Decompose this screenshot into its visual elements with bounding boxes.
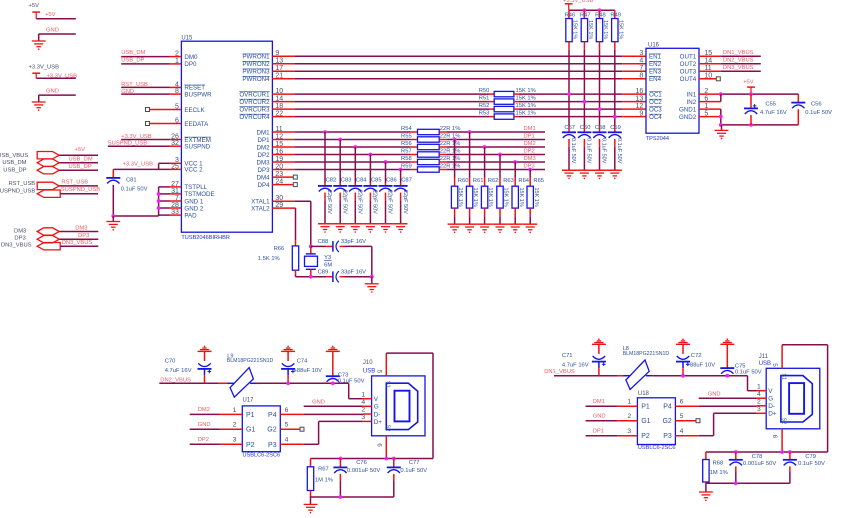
svg-text:DM3: DM3 bbox=[75, 226, 87, 232]
wire rail mid bbox=[654, 375, 748, 377]
wire DM3 row right bbox=[447, 161, 545, 163]
wire bbox=[59, 185, 98, 187]
svg-text:R64: R64 bbox=[518, 178, 529, 184]
svg-text:DN2_VBUS: DN2_VBUS bbox=[723, 57, 754, 63]
wire bottom rail bbox=[721, 124, 799, 126]
svg-text:OUT1: OUT1 bbox=[680, 54, 697, 61]
ground bbox=[463, 223, 477, 225]
svg-text:G: G bbox=[768, 396, 773, 403]
svg-text:22pF 50V: 22pF 50V bbox=[341, 190, 347, 214]
svg-text:G1: G1 bbox=[641, 418, 650, 425]
svg-text:22R 1%: 22R 1% bbox=[440, 141, 461, 147]
capacitor C83 22pF bbox=[339, 140, 341, 184]
resistor R54 22R bbox=[410, 131, 418, 133]
ground bbox=[32, 101, 46, 103]
svg-text:OUT2: OUT2 bbox=[680, 61, 697, 68]
wire DP2 row left bbox=[295, 154, 410, 156]
svg-text:6M: 6M bbox=[324, 262, 332, 268]
svg-text:GND1: GND1 bbox=[679, 106, 697, 113]
svg-text:DN3_VBUS: DN3_VBUS bbox=[1, 242, 32, 248]
svg-text:DN3_VBUS: DN3_VBUS bbox=[723, 65, 754, 71]
wire OVRCUR1 bus right bbox=[519, 93, 622, 95]
wire OVRCUR4 bus right bbox=[519, 116, 622, 118]
wire bottom rail RC bbox=[706, 482, 790, 484]
wire OVRCUR1 bus left bbox=[295, 93, 489, 95]
capacitor C86 22pF bbox=[385, 162, 387, 183]
wire bbox=[59, 231, 98, 233]
wire bbox=[121, 139, 169, 141]
wire DN1_VBUS rail bbox=[554, 375, 624, 377]
wire bbox=[60, 245, 98, 247]
svg-text:R54: R54 bbox=[401, 126, 412, 132]
svg-text:15K 1%: 15K 1% bbox=[457, 188, 463, 207]
svg-text:6: 6 bbox=[771, 435, 778, 439]
svg-text:22pF 50V: 22pF 50V bbox=[357, 190, 363, 214]
svg-text:15K 1%: 15K 1% bbox=[516, 111, 536, 117]
wire shield loop bbox=[782, 344, 828, 346]
svg-text:4.7uF 16V: 4.7uF 16V bbox=[165, 368, 192, 374]
svg-text:R67: R67 bbox=[318, 467, 329, 473]
junction bbox=[734, 450, 738, 454]
svg-text:BUSPWR: BUSPWR bbox=[184, 91, 212, 98]
svg-text:DP2: DP2 bbox=[258, 152, 271, 159]
svg-text:C57: C57 bbox=[564, 125, 575, 131]
svg-text:DP4: DP4 bbox=[258, 182, 271, 189]
capacitor C74 +88uF bbox=[287, 346, 289, 348]
wire GND to J11 G bbox=[699, 397, 757, 399]
wire VCC join bbox=[159, 162, 170, 164]
ground bbox=[608, 169, 622, 171]
svg-text:TSTMODE: TSTMODE bbox=[184, 191, 214, 198]
wire GND to J10 G bbox=[304, 405, 363, 407]
capacitor C75 0.1uF bbox=[727, 338, 729, 340]
svg-text:DP1: DP1 bbox=[593, 429, 604, 435]
resistor R57 22R bbox=[410, 154, 418, 156]
junction bbox=[583, 8, 587, 12]
wire bbox=[59, 169, 98, 171]
svg-text:USB_DM: USB_DM bbox=[2, 160, 26, 166]
svg-text:TPS2044: TPS2044 bbox=[646, 136, 669, 142]
svg-text:VCC 2: VCC 2 bbox=[184, 167, 203, 174]
svg-text:C60: C60 bbox=[580, 125, 591, 131]
svg-text:R65: R65 bbox=[533, 178, 544, 184]
junction bbox=[370, 275, 374, 279]
svg-text:0.1uF 50V: 0.1uF 50V bbox=[601, 138, 607, 164]
svg-text:4.7uF 16V: 4.7uF 16V bbox=[760, 110, 787, 116]
svg-text:USB: USB bbox=[363, 368, 375, 374]
ground bar join C57-C59 bbox=[562, 169, 622, 171]
svg-text:6: 6 bbox=[376, 443, 383, 447]
svg-text:G2: G2 bbox=[267, 427, 276, 434]
junction bbox=[513, 160, 517, 164]
capacitor C51 bypass bbox=[583, 126, 585, 133]
ground U16 bbox=[721, 125, 723, 130]
svg-text:OC3: OC3 bbox=[649, 106, 662, 113]
svg-text:C87: C87 bbox=[401, 177, 412, 183]
resistor R58 22R bbox=[410, 161, 418, 163]
svg-text:RST_USB: RST_USB bbox=[8, 181, 35, 187]
wire top rail RC bbox=[706, 451, 828, 453]
svg-text:DM2: DM2 bbox=[198, 407, 210, 413]
wire IN2 bbox=[699, 101, 721, 103]
wire DP2 row right bbox=[447, 154, 545, 156]
resistor R49 15K pullup bbox=[614, 10, 616, 18]
svg-text:6: 6 bbox=[680, 399, 684, 406]
wire bbox=[121, 86, 169, 88]
ground C81 bbox=[112, 216, 114, 221]
svg-text:GND: GND bbox=[312, 400, 325, 406]
junction bbox=[339, 495, 343, 499]
wire bottom rail RC bbox=[311, 496, 394, 498]
svg-text:C74: C74 bbox=[297, 359, 308, 365]
junction bbox=[788, 450, 792, 454]
svg-text:C70: C70 bbox=[165, 359, 176, 365]
svg-text:R49: R49 bbox=[610, 12, 621, 18]
wire XTAL2 bbox=[294, 207, 297, 209]
resistor R60 15K pulldown bbox=[454, 140, 456, 178]
junction bbox=[468, 130, 472, 134]
junction bbox=[157, 199, 161, 203]
svg-text:P4: P4 bbox=[663, 404, 672, 411]
ground bbox=[364, 223, 378, 225]
resistor R55 22R bbox=[410, 139, 418, 141]
svg-text:15K 1%: 15K 1% bbox=[487, 188, 493, 207]
ground bbox=[348, 223, 362, 225]
wire P4 to D- bbox=[280, 413, 303, 415]
resistor R66 1.5K bbox=[295, 240, 297, 246]
svg-text:4: 4 bbox=[361, 399, 365, 406]
wire rail to J11 V bbox=[747, 376, 749, 391]
svg-text:+3.3V_USB: +3.3V_USB bbox=[29, 65, 60, 71]
svg-text:C85: C85 bbox=[371, 177, 382, 183]
svg-text:3: 3 bbox=[627, 428, 631, 435]
svg-text:R62: R62 bbox=[488, 178, 499, 184]
svg-text:P4: P4 bbox=[268, 412, 277, 419]
wire PWRON3 bus bbox=[295, 70, 623, 72]
ground bar join C82-C87 bbox=[318, 223, 407, 225]
svg-text:22pF 50V: 22pF 50V bbox=[387, 190, 393, 214]
svg-text:C86: C86 bbox=[386, 177, 397, 183]
svg-text:5: 5 bbox=[376, 370, 383, 374]
resistor R64 15K pulldown bbox=[514, 162, 516, 178]
svg-text:16: 16 bbox=[636, 88, 644, 95]
svg-text:DP3: DP3 bbox=[14, 235, 25, 241]
resistor R59 22R bbox=[410, 169, 418, 171]
svg-text:C77: C77 bbox=[409, 460, 420, 466]
svg-text:V: V bbox=[768, 388, 773, 395]
junction bbox=[369, 153, 373, 157]
connector J11 USB body bbox=[766, 368, 820, 429]
junction bbox=[384, 457, 388, 461]
wire PAD rail bbox=[113, 215, 158, 217]
svg-text:EN3: EN3 bbox=[649, 69, 662, 76]
wire PWRON2 bus bbox=[295, 63, 623, 65]
junction bbox=[399, 168, 403, 172]
svg-text:C56: C56 bbox=[811, 101, 822, 107]
svg-text:R68: R68 bbox=[713, 460, 724, 466]
resistor R46 15K pullup bbox=[568, 10, 570, 18]
svg-text:DM3: DM3 bbox=[524, 156, 536, 162]
svg-text:7: 7 bbox=[639, 65, 643, 72]
svg-text:OUT3: OUT3 bbox=[680, 69, 697, 76]
svg-text:33pF 16V: 33pF 16V bbox=[341, 239, 366, 245]
svg-text:R55: R55 bbox=[401, 134, 412, 140]
wire shield loop bbox=[386, 352, 433, 354]
svg-text:IN1: IN1 bbox=[687, 91, 697, 98]
svg-text:15K 1%: 15K 1% bbox=[533, 188, 539, 207]
svg-text:15K 1%: 15K 1% bbox=[503, 188, 509, 207]
capacitor C55 4.7uF bbox=[750, 94, 752, 108]
junction bbox=[384, 160, 388, 164]
wire bbox=[586, 435, 618, 437]
svg-text:R50: R50 bbox=[479, 88, 490, 94]
svg-text:USBLC6-2SC6: USBLC6-2SC6 bbox=[638, 445, 676, 451]
svg-text:DP1: DP1 bbox=[258, 137, 271, 144]
svg-text:1M 1%: 1M 1% bbox=[315, 477, 333, 483]
capacitor C82 22pF bbox=[324, 132, 326, 183]
resistor R52 15K bbox=[489, 108, 494, 110]
svg-text:S1: S1 bbox=[780, 373, 786, 380]
svg-text:R47: R47 bbox=[580, 12, 591, 18]
svg-text:P2: P2 bbox=[641, 433, 650, 440]
wire bbox=[586, 405, 618, 407]
junction bbox=[483, 145, 487, 149]
svg-text:15K 1%: 15K 1% bbox=[572, 20, 578, 39]
svg-text:22R 1%: 22R 1% bbox=[440, 134, 461, 140]
svg-text:1: 1 bbox=[361, 391, 365, 398]
wire top bus bbox=[569, 9, 615, 11]
svg-text:D-: D- bbox=[374, 411, 381, 418]
svg-text:DP3: DP3 bbox=[258, 167, 271, 174]
svg-text:C81: C81 bbox=[126, 178, 137, 184]
svg-text:+88uF 10V: +88uF 10V bbox=[294, 368, 323, 374]
svg-text:XTAL2: XTAL2 bbox=[251, 205, 270, 212]
junction bbox=[323, 130, 327, 134]
svg-text:2: 2 bbox=[627, 413, 631, 420]
svg-text:DN1_VBUS: DN1_VBUS bbox=[723, 50, 754, 56]
svg-text:USB_DM: USB_DM bbox=[69, 157, 93, 163]
svg-text:1: 1 bbox=[233, 407, 237, 414]
svg-text:J11: J11 bbox=[759, 354, 769, 360]
wire bbox=[121, 63, 169, 65]
svg-text:C78: C78 bbox=[752, 454, 763, 460]
wire OVRCUR2 bus right bbox=[519, 101, 622, 103]
svg-text:DP3: DP3 bbox=[78, 233, 89, 239]
svg-text:0.001uF 50V: 0.001uF 50V bbox=[743, 461, 776, 467]
capacitor C52 bypass bbox=[599, 126, 601, 133]
svg-text:4.7uF 16V: 4.7uF 16V bbox=[562, 362, 589, 368]
no-connect G2 bbox=[696, 419, 700, 423]
wire OVRCUR4 bus left bbox=[295, 116, 489, 118]
capacitor C53 bypass bbox=[614, 126, 616, 133]
svg-text:22R 1%: 22R 1% bbox=[440, 164, 461, 170]
svg-text:2: 2 bbox=[361, 407, 365, 414]
ground bbox=[523, 223, 537, 225]
svg-text:C89: C89 bbox=[318, 269, 329, 275]
ground bbox=[333, 223, 347, 225]
svg-text:15K 1%: 15K 1% bbox=[518, 188, 524, 207]
svg-text:OC4: OC4 bbox=[649, 114, 662, 121]
resistor R56 22R bbox=[410, 146, 418, 148]
svg-text:IN2: IN2 bbox=[687, 99, 697, 106]
svg-text:U16: U16 bbox=[648, 42, 660, 48]
wire OVRCUR3 bus right bbox=[519, 108, 622, 110]
svg-text:DN2_VBUS: DN2_VBUS bbox=[160, 377, 191, 383]
wire P3 to D+ bbox=[280, 443, 303, 445]
wire bbox=[59, 154, 98, 156]
svg-text:USB_DP: USB_DP bbox=[121, 57, 144, 63]
svg-text:C55: C55 bbox=[765, 101, 776, 107]
junction bbox=[598, 107, 602, 111]
wire bbox=[36, 18, 76, 20]
junction bbox=[453, 138, 457, 142]
junction bbox=[392, 457, 396, 461]
svg-text:D+: D+ bbox=[768, 411, 777, 418]
svg-text:4: 4 bbox=[285, 437, 289, 444]
svg-text:DM1: DM1 bbox=[593, 399, 605, 405]
svg-text:R66: R66 bbox=[274, 246, 285, 252]
wire G2 nc bbox=[280, 428, 300, 430]
svg-text:0.1uF 50V: 0.1uF 50V bbox=[616, 138, 622, 164]
svg-text:GND: GND bbox=[46, 88, 59, 94]
svg-text:SUSPND: SUSPND bbox=[184, 144, 210, 151]
svg-text:15K 1%: 15K 1% bbox=[472, 188, 478, 207]
junction bbox=[286, 381, 290, 385]
svg-text:OVRCUR4: OVRCUR4 bbox=[239, 114, 270, 121]
svg-text:R51: R51 bbox=[479, 96, 490, 102]
capacitor C79 0.1uF bbox=[789, 452, 791, 460]
no-connect EECLK bbox=[146, 108, 150, 112]
capacitor C84 22pF bbox=[354, 147, 356, 183]
svg-text:DP2: DP2 bbox=[198, 437, 209, 443]
ground R68 bbox=[705, 483, 707, 491]
junction bbox=[309, 275, 313, 279]
junction bbox=[353, 145, 357, 149]
svg-text:C72: C72 bbox=[691, 353, 702, 359]
wire bbox=[60, 193, 98, 195]
wire P3 to D+ bbox=[675, 435, 698, 437]
svg-text:+3.3V_USB: +3.3V_USB bbox=[123, 162, 154, 168]
op-amp U15 TUSB2046B body bbox=[181, 41, 272, 232]
resistor R47 15K pullup bbox=[583, 10, 585, 18]
svg-text:DN3_VBUS: DN3_VBUS bbox=[62, 240, 93, 246]
svg-text:0.1uF 50V: 0.1uF 50V bbox=[735, 369, 762, 375]
svg-text:GND: GND bbox=[46, 27, 59, 33]
resistor R65 15K pulldown bbox=[529, 170, 531, 178]
svg-text:0.1uF 50V: 0.1uF 50V bbox=[585, 138, 591, 164]
ground bbox=[318, 223, 332, 225]
wire rail mid bbox=[256, 382, 349, 384]
svg-text:S2: S2 bbox=[780, 418, 786, 425]
svg-text:PAD: PAD bbox=[184, 212, 197, 219]
resistor R67 1M bbox=[310, 459, 312, 467]
junction bbox=[528, 168, 532, 172]
svg-text:15K 1%: 15K 1% bbox=[516, 96, 536, 102]
svg-text:OUT4: OUT4 bbox=[680, 76, 697, 83]
wire bbox=[150, 123, 170, 125]
svg-text:U18: U18 bbox=[638, 391, 650, 397]
wire bbox=[190, 428, 220, 430]
op-amp U16 TPS2044 body bbox=[646, 48, 699, 133]
wire GND vertical bbox=[720, 109, 722, 125]
wire DM1 row left bbox=[295, 131, 410, 133]
junction bbox=[719, 123, 723, 127]
svg-text:3: 3 bbox=[639, 50, 643, 57]
svg-text:15K 1%: 15K 1% bbox=[516, 103, 536, 109]
svg-text:V: V bbox=[374, 396, 379, 403]
ground bbox=[562, 169, 576, 171]
svg-text:22R 1%: 22R 1% bbox=[440, 126, 461, 132]
svg-text:5: 5 bbox=[680, 413, 684, 420]
svg-text:G1: G1 bbox=[246, 427, 255, 434]
capacitor C50 bypass bbox=[568, 126, 570, 133]
svg-text:13: 13 bbox=[636, 96, 644, 103]
wire bbox=[190, 443, 220, 445]
svg-text:GND2: GND2 bbox=[679, 114, 697, 121]
svg-text:OVRCUR3: OVRCUR3 bbox=[239, 106, 270, 113]
svg-text:C75: C75 bbox=[735, 363, 746, 369]
svg-text:J10: J10 bbox=[363, 360, 373, 366]
junction bbox=[749, 92, 753, 96]
svg-text:DP1: DP1 bbox=[524, 133, 535, 139]
svg-text:R63: R63 bbox=[503, 178, 514, 184]
svg-text:EECLK: EECLK bbox=[184, 107, 205, 114]
junction bbox=[725, 374, 729, 378]
svg-text:R52: R52 bbox=[479, 103, 490, 109]
svg-text:R53: R53 bbox=[479, 111, 490, 117]
no-connect OUT4 bbox=[716, 77, 720, 81]
wire R46 to OC1 bbox=[568, 50, 570, 126]
svg-text:+5V: +5V bbox=[75, 147, 86, 153]
svg-text:GND: GND bbox=[593, 414, 606, 420]
svg-text:3: 3 bbox=[233, 437, 237, 444]
capacitor C70 4.7uF bbox=[204, 346, 206, 348]
svg-text:R46: R46 bbox=[565, 12, 576, 18]
svg-text:P1: P1 bbox=[246, 412, 255, 419]
junction bbox=[498, 153, 502, 157]
svg-text:2: 2 bbox=[233, 422, 237, 429]
wire DP3 row right bbox=[447, 169, 545, 171]
wire P4 to D- bbox=[675, 405, 698, 407]
junction bbox=[734, 481, 738, 485]
svg-text:TUSB2046BIRHBR: TUSB2046BIRHBR bbox=[181, 235, 230, 241]
junction bbox=[719, 92, 723, 96]
junction bbox=[598, 8, 602, 12]
wire GND2 bbox=[699, 116, 721, 118]
svg-text:BLM18PG221SN1D: BLM18PG221SN1D bbox=[227, 358, 274, 364]
capacitor C77 0.1uF bbox=[393, 459, 395, 468]
capacitor C56 0.1uF bbox=[797, 94, 799, 96]
junction bbox=[613, 115, 617, 119]
svg-text:4: 4 bbox=[757, 391, 761, 398]
op-amp U18 USBLC6 body bbox=[637, 398, 675, 445]
svg-text:DM2: DM2 bbox=[524, 141, 536, 147]
svg-text:8: 8 bbox=[639, 73, 643, 80]
svg-text:R59: R59 bbox=[401, 164, 412, 170]
svg-text:22R 1%: 22R 1% bbox=[440, 149, 461, 155]
svg-text:OVRCUR1: OVRCUR1 bbox=[239, 91, 270, 98]
svg-text:SUSPND_USB: SUSPND_USB bbox=[0, 189, 35, 195]
no-connect G2 bbox=[300, 427, 304, 431]
capacitor C76 0.001uF bbox=[339, 459, 341, 468]
wire OVRCUR2 bus left bbox=[295, 101, 489, 103]
wire bbox=[121, 56, 169, 58]
svg-text:15K 1%: 15K 1% bbox=[617, 20, 623, 39]
svg-text:12: 12 bbox=[636, 103, 644, 110]
svg-text:4: 4 bbox=[680, 428, 684, 435]
svg-text:2: 2 bbox=[757, 398, 761, 405]
svg-text:DN1_VBUS: DN1_VBUS bbox=[544, 369, 575, 375]
